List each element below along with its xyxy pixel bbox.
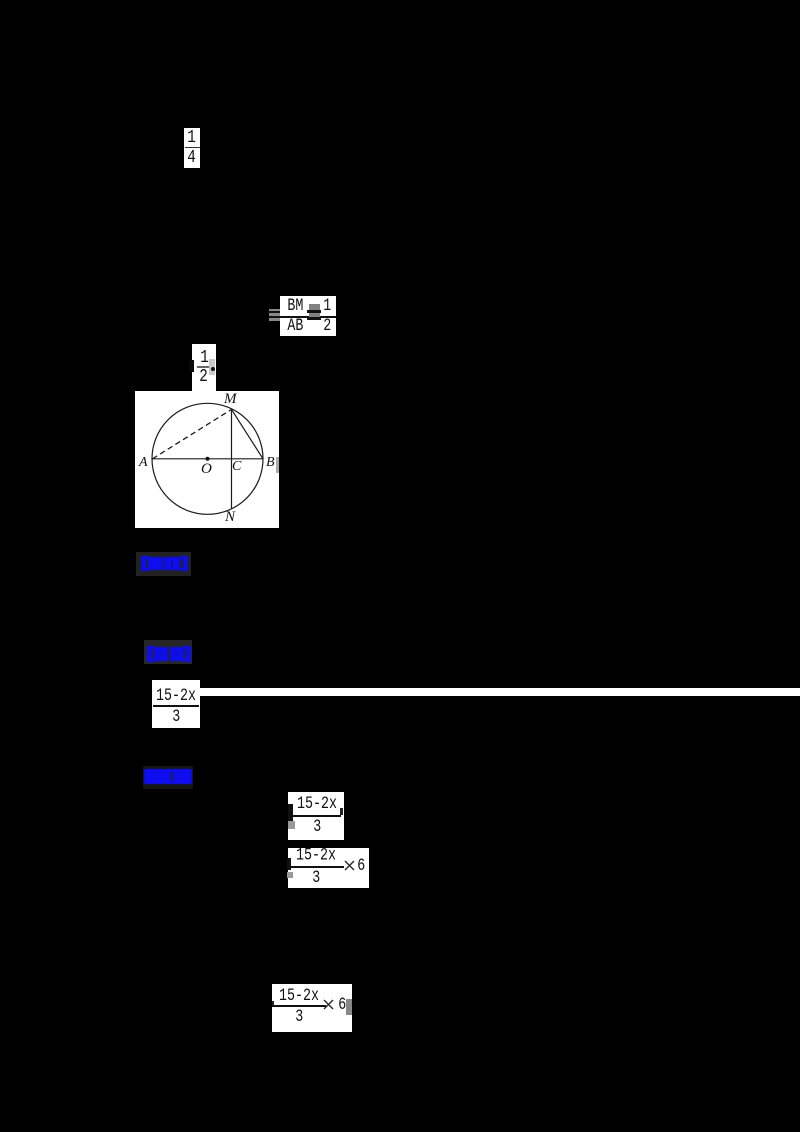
dark fragment at left edge of 1/2 box xyxy=(189,360,194,372)
equation (15-2x)/3 x 6 image box xyxy=(288,848,369,888)
geometry circle diagram image box xyxy=(135,391,279,528)
label B xyxy=(266,456,275,470)
label O xyxy=(201,462,212,476)
label C xyxy=(232,460,241,474)
dashed line AM xyxy=(153,409,232,458)
blue section label 3 (jie da), nearly solid xyxy=(143,766,193,789)
equals fragment left of BM/AB box xyxy=(269,309,280,321)
center dot O xyxy=(206,457,210,461)
blue section label 2 (fen xi) on dark box xyxy=(144,640,192,664)
label N xyxy=(225,510,235,524)
blue section label 1 (dian ping) on dark box xyxy=(136,552,191,576)
equation (15-2x)/3 x 6 image box (second) xyxy=(272,984,352,1032)
diameter AB xyxy=(152,458,263,460)
chord MN xyxy=(231,409,233,508)
equation BM/AB = 1/2 image box xyxy=(280,296,336,336)
fraction 1/2 image box with period xyxy=(192,344,216,391)
label M xyxy=(224,392,237,406)
gray mark right of B xyxy=(276,457,279,473)
equation (15-2x)/3 with comma image box xyxy=(288,792,344,840)
circle O xyxy=(152,403,263,514)
line MB xyxy=(232,409,264,458)
label A xyxy=(139,456,148,470)
fraction (15-2x)/3 image box xyxy=(152,680,200,728)
fraction 1/4 image box xyxy=(184,128,200,168)
long white horizontal bar xyxy=(200,688,800,696)
